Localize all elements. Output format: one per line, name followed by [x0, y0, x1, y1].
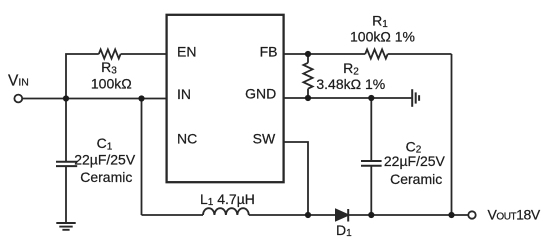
inductor L1 — [203, 208, 249, 215]
svg-text:22µF/25V: 22µF/25V — [384, 153, 446, 169]
svg-text:22µF/25V: 22µF/25V — [74, 152, 136, 168]
ground (GND pin, sideways) — [412, 89, 419, 107]
wire C2 top lead — [370, 98, 372, 161]
resistor R2 — [303, 63, 312, 89]
wire feedback drop — [451, 54, 453, 215]
wire R3 to EN pin — [121, 53, 167, 55]
svg-text:3.48kΩ 1%: 3.48kΩ 1% — [316, 76, 385, 92]
node junction SW — [305, 212, 311, 218]
node junction C2 top — [368, 95, 374, 101]
node junction VIN/C1 — [63, 95, 69, 101]
wire R2 bottom lead — [307, 89, 309, 98]
resistor R1 — [365, 49, 388, 58]
capacitor C2 — [361, 161, 382, 166]
svg-text:NC: NC — [177, 131, 197, 147]
wire L1 to diode — [249, 214, 336, 216]
wire R2 top lead — [307, 54, 309, 63]
wire FB — [284, 53, 366, 55]
svg-text:L1 4.7µH: L1 4.7µH — [200, 191, 255, 208]
svg-text:100kΩ: 100kΩ — [91, 75, 132, 91]
ground (C1) — [56, 223, 75, 230]
wire C2 bottom lead — [370, 166, 372, 215]
svg-text:SW: SW — [253, 131, 276, 147]
terminal VOUT — [468, 211, 475, 218]
svg-text:Ceramic: Ceramic — [80, 169, 132, 185]
svg-text:IN: IN — [177, 86, 191, 102]
svg-text:R3: R3 — [101, 59, 117, 76]
svg-text:FB: FB — [260, 43, 278, 59]
svg-text:GND: GND — [245, 85, 276, 101]
svg-text:EN: EN — [177, 44, 196, 60]
wire GND pin to ground — [284, 97, 412, 99]
svg-text:C1: C1 — [97, 135, 113, 152]
wire R1 to feedback drop — [388, 53, 452, 55]
svg-text:R2: R2 — [343, 60, 359, 77]
wire bottom to L1 — [142, 214, 204, 216]
wire D1 to VOUT — [348, 214, 468, 216]
node junction R2 bottom — [305, 95, 311, 101]
resistor R3 — [99, 49, 121, 58]
wire C1 bottom lead — [65, 166, 67, 223]
svg-text:100kΩ 1%: 100kΩ 1% — [350, 29, 415, 45]
capacitor C1 — [56, 162, 77, 166]
svg-text:VIN: VIN — [8, 73, 29, 90]
node junction feedback — [448, 212, 454, 218]
node junction L1 feed — [138, 95, 144, 101]
svg-text:R1: R1 — [372, 13, 388, 30]
wire EN riser — [66, 54, 99, 99]
diode D1 — [336, 210, 348, 221]
node junction R2 top — [305, 51, 311, 57]
svg-text:Ceramic: Ceramic — [390, 171, 442, 187]
svg-text:VOUT18V: VOUT18V — [488, 207, 541, 223]
node junction C2 bottom — [368, 212, 374, 218]
wire SW stub — [284, 142, 308, 215]
terminal VIN — [14, 95, 22, 103]
wire VIN to IN pin — [23, 98, 167, 100]
op-amp U1 (converter IC body) — [167, 15, 284, 182]
wire L1 feed drop — [141, 99, 143, 216]
wire C1 top lead — [65, 99, 67, 162]
svg-text:D1: D1 — [336, 222, 352, 239]
